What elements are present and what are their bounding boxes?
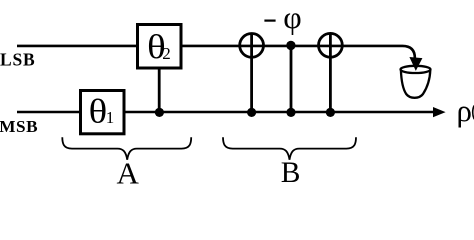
arrowhead into discard bbox=[409, 57, 422, 71]
svg-text:1: 1 bbox=[106, 108, 115, 127]
svg-text:2: 2 bbox=[162, 44, 171, 63]
svg-text:B: B bbox=[281, 157, 301, 187]
svg-text:θ: θ bbox=[89, 93, 108, 130]
discard cup rim bbox=[401, 66, 431, 73]
gate CNOT1 target circle bbox=[240, 34, 264, 58]
svg-text:MSB: MSB bbox=[0, 117, 38, 136]
junction control dot under theta2 bbox=[155, 108, 164, 117]
svg-text:ρ: ρ bbox=[457, 93, 472, 128]
gate box theta2 bbox=[138, 25, 182, 69]
brace B bbox=[223, 137, 356, 160]
junction CNOT2 control dot bbox=[326, 108, 335, 117]
junction CNOT1 control dot bbox=[247, 108, 256, 117]
label cut parenthesis at edge bbox=[473, 106, 474, 120]
wire LSB (top rail with bend down to discard) bbox=[17, 46, 415, 61]
brace A bbox=[62, 137, 191, 160]
wire control line from theta2 to MSB bbox=[158, 68, 161, 112]
label minus sign of -phi bbox=[264, 20, 275, 22]
svg-text:LSB: LSB bbox=[0, 49, 35, 69]
svg-text:A: A bbox=[117, 155, 140, 187]
discard cup body bbox=[401, 70, 430, 98]
arrowhead output rho bbox=[433, 107, 446, 117]
wire phase gate vertical bbox=[290, 45, 293, 112]
wire MSB (bottom rail) bbox=[17, 111, 434, 114]
svg-text:φ: φ bbox=[283, 0, 301, 35]
wire CNOT2 vertical bbox=[329, 34, 332, 113]
junction phase dot on MSB bbox=[286, 108, 295, 117]
gate CNOT2 target circle bbox=[319, 33, 343, 57]
gate box theta1 bbox=[81, 91, 125, 134]
wire CNOT1 vertical bbox=[250, 34, 253, 112]
junction phase dot on LSB bbox=[286, 41, 295, 50]
